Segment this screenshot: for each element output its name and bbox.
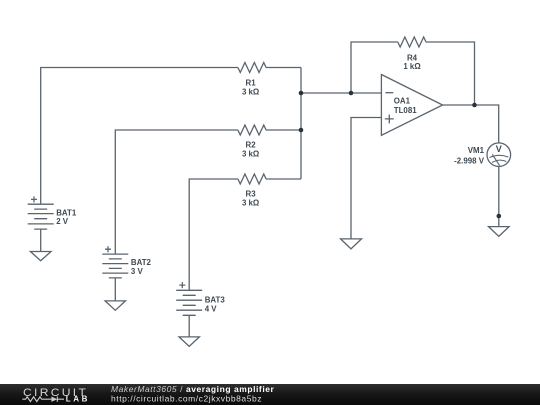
ground BAT2 bbox=[105, 301, 125, 310]
ground BAT3 bbox=[179, 337, 199, 347]
voltmeter meter arc 1 bbox=[490, 155, 509, 157]
svg-text:3 kΩ: 3 kΩ bbox=[242, 199, 259, 208]
wire R1 right lead bbox=[266, 67, 301, 69]
wire vertical bus x=301 bbox=[300, 68, 302, 180]
node R2 junction bbox=[299, 128, 304, 133]
svg-text:VM1: VM1 bbox=[468, 146, 485, 155]
voltmeter needle bbox=[492, 154, 499, 165]
junction node dots bbox=[299, 91, 501, 219]
node R1/opamp bus junction bbox=[299, 91, 304, 96]
resistor R2 bbox=[238, 125, 266, 135]
wire R2 right lead bbox=[266, 129, 301, 131]
node feedback junction bbox=[349, 91, 354, 96]
svg-text:-2.998 V: -2.998 V bbox=[454, 156, 485, 165]
svg-text:3 kΩ: 3 kΩ bbox=[242, 149, 259, 158]
op-amp OA1 triangle bbox=[381, 75, 442, 136]
battery BAT1 plates bbox=[28, 204, 54, 229]
wire feedback right branch bbox=[426, 42, 475, 105]
svg-text:R3: R3 bbox=[246, 189, 257, 198]
wire voltmeter to ground bbox=[498, 167, 500, 227]
svg-text:OA1: OA1 bbox=[394, 96, 411, 105]
svg-text:http://circuitlab.com/c2jkxvbb: http://circuitlab.com/c2jkxvbb8a5bz bbox=[111, 393, 262, 403]
voltmeter VM1 circle bbox=[487, 143, 511, 167]
op-amp minus pin symbol bbox=[385, 92, 393, 94]
ground BAT1 bbox=[30, 252, 51, 261]
ground op-amp plus input bbox=[341, 239, 362, 249]
battery BAT2 plates bbox=[102, 254, 128, 278]
node output junction bbox=[472, 103, 477, 108]
wire feedback left branch bbox=[351, 42, 398, 93]
wire BAT3 to ground bbox=[188, 315, 190, 337]
wire op-amp output to voltmeter bbox=[443, 105, 499, 143]
svg-text:4 V: 4 V bbox=[205, 305, 218, 314]
ground voltmeter bbox=[489, 227, 510, 237]
op-amp plus pin symbol bbox=[385, 115, 394, 124]
svg-text:1 kΩ: 1 kΩ bbox=[403, 62, 420, 71]
wire BAT1 top to R1 bbox=[41, 68, 238, 205]
svg-text:R1: R1 bbox=[246, 78, 257, 87]
wire BAT3 top to R3 bbox=[189, 179, 238, 290]
battery BAT3 plates bbox=[176, 290, 202, 315]
svg-text:BAT2: BAT2 bbox=[131, 258, 152, 267]
svg-text:3 V: 3 V bbox=[131, 267, 144, 276]
wire non-inverting input to ground bbox=[351, 118, 381, 239]
battery BAT3 plus sign bbox=[179, 282, 185, 288]
voltmeter meter arc 2 bbox=[492, 160, 506, 162]
wire BAT2 to ground bbox=[114, 278, 116, 301]
wire BAT1 to ground bbox=[40, 229, 42, 251]
battery BAT1 plus sign bbox=[31, 196, 37, 202]
svg-text:BAT3: BAT3 bbox=[205, 296, 226, 305]
svg-text:R2: R2 bbox=[246, 140, 257, 149]
resistor R1 bbox=[238, 63, 266, 73]
resistor R4 bbox=[398, 37, 426, 47]
svg-text:LAB: LAB bbox=[66, 395, 90, 404]
footer bar bbox=[0, 384, 540, 405]
wire R3 right lead bbox=[266, 178, 301, 180]
battery BAT2 plus sign bbox=[105, 246, 111, 252]
svg-text:TL081: TL081 bbox=[394, 106, 417, 115]
svg-text:3 kΩ: 3 kΩ bbox=[242, 87, 259, 96]
svg-text:V: V bbox=[496, 144, 502, 154]
logo resistor zigzag bbox=[22, 397, 48, 402]
resistor R3 bbox=[238, 174, 266, 184]
wire node to op-amp inverting input bbox=[301, 92, 381, 94]
wire BAT2 top to R2 bbox=[115, 130, 238, 254]
logo diode symbol bbox=[51, 397, 57, 402]
svg-text:BAT1: BAT1 bbox=[56, 208, 77, 217]
node voltmeter ground junction bbox=[497, 214, 502, 219]
svg-text:R4: R4 bbox=[407, 54, 418, 63]
svg-text:2 V: 2 V bbox=[56, 217, 69, 226]
